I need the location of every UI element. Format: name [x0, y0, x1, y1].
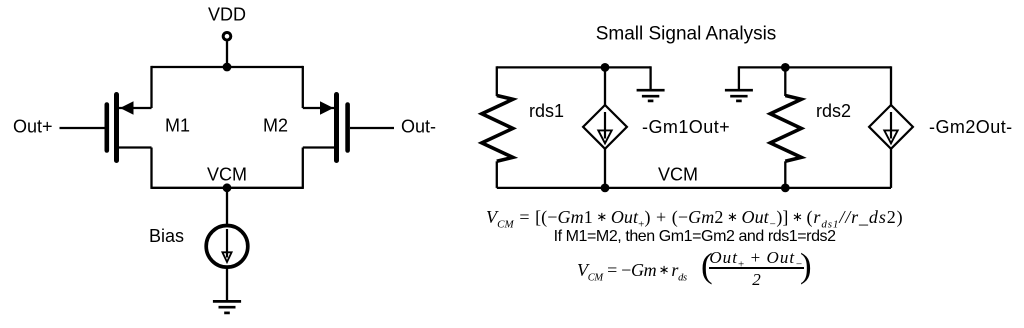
wire ground stub B [738, 66, 740, 90]
ground A [637, 90, 665, 101]
wire source G1 bottom [604, 149, 606, 188]
equation 2 left paren [701, 248, 713, 283]
svg-text:VCM: VCM [658, 165, 698, 185]
wire M2 drain drop [302, 66, 304, 108]
wire M1 drain drop [150, 66, 152, 108]
note line: If M1=M2 [554, 229, 836, 245]
svg-text:-Gm1Out+: -Gm1Out+ [642, 117, 730, 137]
resistor rds1 [482, 96, 513, 162]
svg-text:Out-: Out- [401, 117, 436, 137]
wire VCM rail (small signal) [497, 187, 891, 189]
resistor rds2 [770, 96, 801, 162]
junction node A [601, 63, 610, 72]
wire top rail B (right subcircuit) [739, 66, 891, 68]
junction VCM G1 [601, 184, 610, 193]
wire rds1 top [496, 66, 498, 96]
equation 2 main: VCM = -Gm*rds [577, 261, 687, 281]
wire M2 source drop [302, 148, 304, 189]
wire rds2 bottom [784, 161, 786, 188]
junction VDD rail [223, 63, 232, 72]
equation 2 right paren [800, 248, 812, 283]
dependent source G2 [869, 105, 913, 149]
wire ground stub A [649, 66, 651, 90]
junction VCM rds2 [781, 184, 790, 193]
svg-text:M1: M1 [165, 116, 190, 136]
transistor M2 [303, 95, 394, 161]
wire VCM rail [152, 187, 304, 189]
svg-text:VCM: VCM [207, 165, 247, 185]
wire M1 source drop [150, 148, 152, 189]
wire rds1 bottom [496, 161, 498, 188]
wire VDD stub [226, 41, 228, 67]
dependent source G1 [583, 105, 627, 149]
equation 2 fraction bar [709, 267, 804, 269]
ground B [725, 90, 753, 101]
equation 1: VCM = [(-Gm1*Out+) + (-Gm2*Out-)] * (rds1//r_ds2) [486, 208, 904, 228]
svg-text:M2: M2 [263, 116, 288, 136]
wire source G2 top [890, 66, 892, 105]
wire bias to ground [226, 268, 228, 301]
current source Bias [206, 226, 248, 268]
svg-text:Small Signal Analysis: Small Signal Analysis [596, 24, 777, 45]
svg-text:Bias: Bias [149, 226, 184, 246]
wire top rail A (left subcircuit) [497, 66, 651, 68]
wire rds2 top [784, 67, 786, 96]
wire VCM to bias [226, 188, 228, 227]
svg-text:-Gm2Out-: -Gm2Out- [929, 117, 1013, 137]
svg-text:VDD: VDD [208, 5, 246, 25]
equation 2 denominator [709, 271, 804, 288]
junction VCM [223, 183, 232, 192]
svg-text:rds2: rds2 [816, 101, 851, 121]
equation 2 numerator [709, 249, 804, 266]
wire source G2 bottom [890, 149, 892, 188]
ground (bias) [213, 301, 241, 313]
svg-text:Out+: Out+ [13, 117, 53, 137]
wire top rail [152, 66, 304, 68]
VDD terminal (open circle) [223, 33, 231, 41]
wire source G1 top [604, 67, 606, 105]
transistor M1 [60, 95, 152, 161]
svg-text:rds1: rds1 [529, 101, 564, 121]
junction node B [781, 63, 790, 72]
